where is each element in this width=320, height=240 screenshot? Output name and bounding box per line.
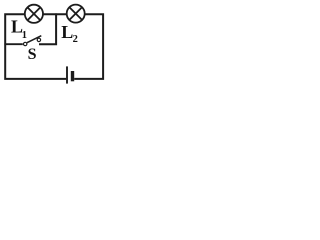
wire switch branch stub <box>4 43 22 45</box>
wire outer loop <box>5 14 103 79</box>
switch S <box>24 36 42 46</box>
lamp L1 <box>25 5 43 23</box>
battery <box>67 66 73 83</box>
svg-text:S: S <box>28 46 37 63</box>
svg-text:L: L <box>61 22 73 42</box>
lamp L2 <box>67 5 85 23</box>
svg-text:1: 1 <box>22 30 27 41</box>
svg-text:2: 2 <box>73 34 78 45</box>
wire middle vertical with corner <box>39 13 56 44</box>
